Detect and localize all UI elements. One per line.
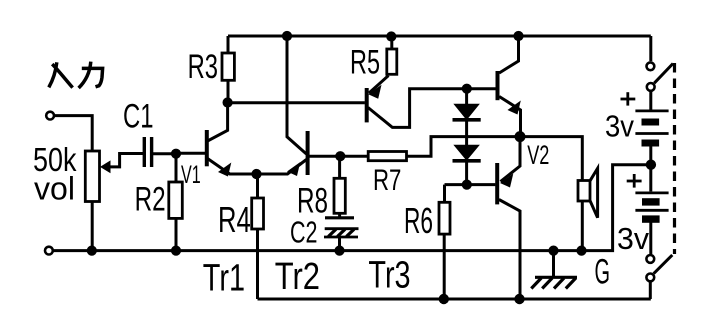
ground G xyxy=(548,246,558,256)
svg-text:Tr2: Tr2 xyxy=(275,255,320,298)
resistor R4 xyxy=(256,174,259,198)
node R5 top xyxy=(386,31,396,41)
transistor Tr3 xyxy=(365,88,369,122)
switch gang dashed link xyxy=(673,63,676,254)
node C2 bottom xyxy=(334,246,344,256)
node pot bottom xyxy=(87,246,97,256)
potentiometer 50k vol xyxy=(85,151,99,202)
battery B2 3v xyxy=(635,191,668,194)
svg-text:G: G xyxy=(595,253,611,292)
capacitor C1 xyxy=(143,137,146,167)
wire R3 node to Tr3 base xyxy=(228,101,365,104)
svg-text:Tr3: Tr3 xyxy=(368,254,410,297)
resistor R2 xyxy=(175,154,178,182)
transistor Tr1 xyxy=(205,130,209,166)
node Q4 collector top rail xyxy=(513,31,523,41)
diode D2 xyxy=(454,145,478,160)
svg-text:C1: C1 xyxy=(123,98,154,136)
svg-text:3v: 3v xyxy=(605,108,634,143)
svg-text:C2: C2 xyxy=(290,215,318,250)
transistor Tr2 xyxy=(306,131,310,175)
node common emitters xyxy=(251,169,261,179)
resistor R5 xyxy=(390,36,393,49)
node R3 bottom / Tr1 collector xyxy=(223,97,233,107)
resistor R6 xyxy=(445,183,467,186)
node R2 bottom xyxy=(171,246,181,256)
resistor R7 xyxy=(340,155,368,158)
potentiometer wiper arrow xyxy=(110,154,144,167)
resistor R8 xyxy=(338,156,341,178)
svg-text:vol: vol xyxy=(34,171,75,207)
node Tr2 collector top rail xyxy=(282,31,292,41)
svg-text:R5: R5 xyxy=(350,44,380,82)
wire node A to Tr1 base xyxy=(176,152,205,155)
node diode bottom / V2 base xyxy=(462,180,472,190)
svg-text:V2: V2 xyxy=(527,140,549,170)
node A: C1/R2/Tr1 base xyxy=(171,149,181,159)
node battery center tap xyxy=(646,160,656,170)
label 入力 xyxy=(49,62,103,88)
wire output to speaker xyxy=(520,137,582,181)
svg-text:3v: 3v xyxy=(617,222,650,256)
node diode top / Tr3 collector xyxy=(462,84,472,94)
node R6 bottom rail xyxy=(439,294,449,304)
top rail xyxy=(228,35,651,38)
wire input to pot xyxy=(54,116,92,151)
svg-text:R7: R7 xyxy=(373,164,401,197)
switch S1 xyxy=(647,62,655,70)
wire R7 to output node xyxy=(407,137,521,157)
transistor V2 bottom output xyxy=(495,163,499,204)
svg-text:R3: R3 xyxy=(188,48,218,86)
svg-text:R6: R6 xyxy=(404,200,433,241)
input terminal top xyxy=(46,112,54,120)
svg-text:Tr1: Tr1 xyxy=(203,257,245,300)
svg-text:R4: R4 xyxy=(218,199,251,240)
diode D1 xyxy=(465,89,468,105)
svg-text:V1: V1 xyxy=(181,162,201,189)
plus sign battery B1 xyxy=(621,98,636,101)
plus sign battery B2 xyxy=(627,180,642,183)
node speaker bottom xyxy=(576,246,586,256)
resistor R3 xyxy=(227,36,230,53)
wire S1 to battery B1 xyxy=(649,91,652,110)
node Tr2 base xyxy=(335,151,345,161)
output node xyxy=(515,131,526,142)
switch S2 xyxy=(646,255,654,263)
svg-text:R2: R2 xyxy=(135,180,166,218)
wire top rail to switch S1 xyxy=(649,36,652,61)
speaker xyxy=(578,181,590,202)
transistor Q4 top output xyxy=(496,71,500,100)
bottom rail xyxy=(258,298,651,301)
node V2 collector bottom rail xyxy=(514,294,524,304)
battery B1 3v xyxy=(635,110,668,113)
ground rail (0V) xyxy=(52,165,646,251)
input terminal bottom xyxy=(45,247,53,255)
capacitor C2 xyxy=(325,216,354,219)
